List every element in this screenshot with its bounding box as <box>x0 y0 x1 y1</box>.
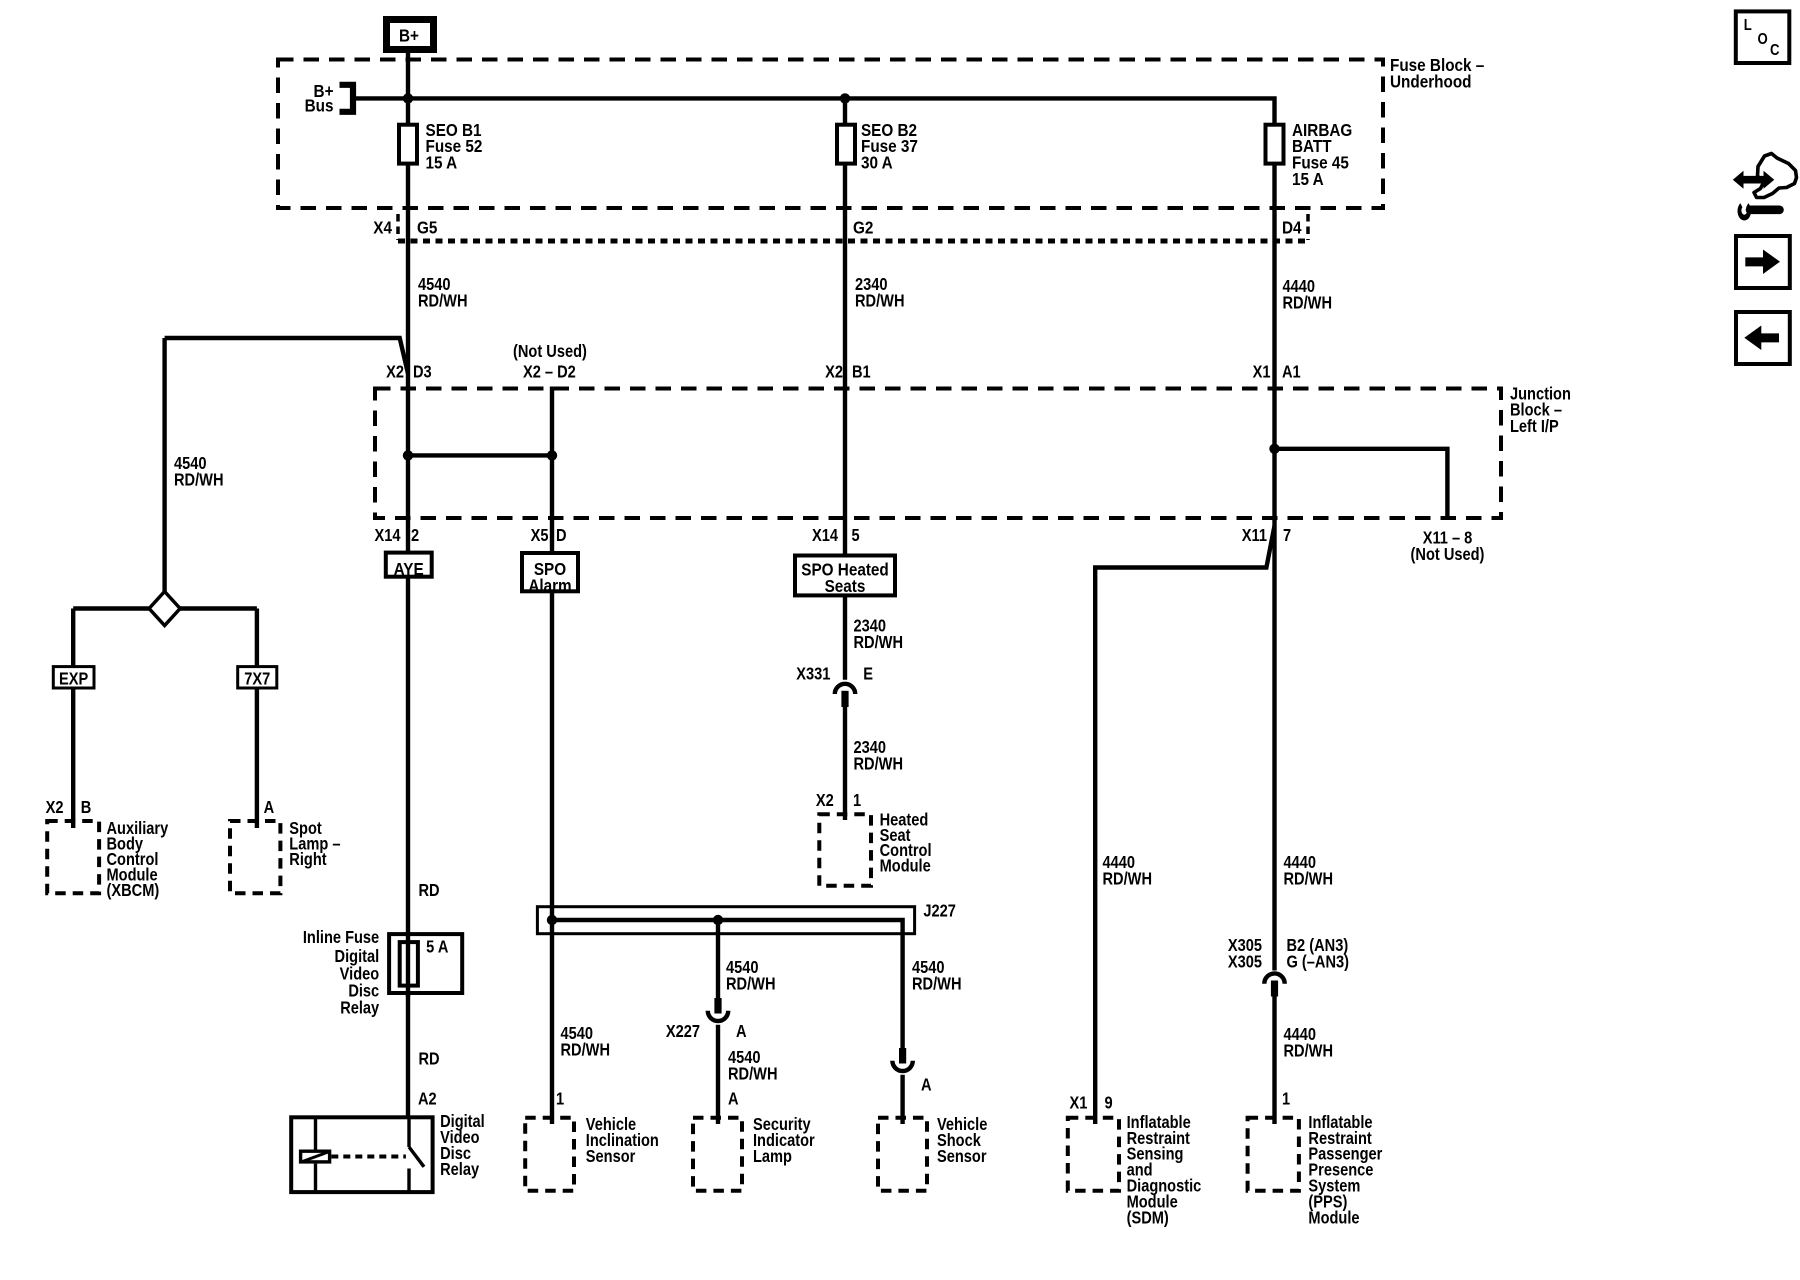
svg-text:30 A: 30 A <box>861 152 893 172</box>
svg-text:D: D <box>556 527 567 545</box>
svg-text:15 A: 15 A <box>426 152 458 172</box>
svg-text:B+: B+ <box>399 25 419 45</box>
svg-text:5: 5 <box>851 527 859 545</box>
svg-text:RD/WH: RD/WH <box>854 634 904 652</box>
svg-text:15 A: 15 A <box>1292 169 1324 189</box>
svg-text:Video: Video <box>340 965 380 983</box>
svg-text:Sensor: Sensor <box>586 1148 636 1166</box>
svg-text:O: O <box>1758 31 1768 48</box>
svg-text:2: 2 <box>411 527 419 545</box>
svg-text:A: A <box>264 799 275 817</box>
svg-text:Disc: Disc <box>348 982 379 1000</box>
svg-text:E: E <box>863 665 873 683</box>
svg-text:Seats: Seats <box>825 576 866 596</box>
svg-text:Relay: Relay <box>340 999 379 1017</box>
svg-text:(Not Used): (Not Used) <box>513 343 587 361</box>
svg-text:RD/WH: RD/WH <box>912 975 962 993</box>
svg-text:A: A <box>728 1091 739 1109</box>
svg-text:A: A <box>736 1023 747 1041</box>
svg-text:AYE: AYE <box>394 559 424 579</box>
svg-text:L: L <box>1744 17 1752 34</box>
svg-text:J227: J227 <box>923 902 956 920</box>
svg-text:(XBCM): (XBCM) <box>106 882 159 900</box>
svg-text:X2: X2 <box>46 799 64 817</box>
svg-text:X2: X2 <box>386 363 404 381</box>
svg-text:7: 7 <box>1283 527 1291 545</box>
svg-text:X2 – D2: X2 – D2 <box>523 363 576 381</box>
svg-text:RD/WH: RD/WH <box>1103 870 1153 888</box>
svg-text:G (–AN3): G (–AN3) <box>1287 953 1350 971</box>
svg-text:RD/WH: RD/WH <box>560 1041 610 1059</box>
svg-text:Right: Right <box>289 851 327 869</box>
svg-text:B1: B1 <box>852 363 871 381</box>
svg-text:A: A <box>921 1077 932 1095</box>
svg-text:Alarm: Alarm <box>528 575 571 595</box>
svg-text:X1: X1 <box>1253 363 1271 381</box>
svg-text:X305: X305 <box>1228 953 1262 971</box>
svg-text:X14: X14 <box>812 527 838 545</box>
svg-text:RD/WH: RD/WH <box>1284 1043 1334 1061</box>
svg-text:RD/WH: RD/WH <box>726 975 776 993</box>
svg-text:X11: X11 <box>1242 527 1267 545</box>
svg-text:RD/WH: RD/WH <box>1282 294 1332 312</box>
svg-text:RD/WH: RD/WH <box>854 755 904 773</box>
svg-text:X227: X227 <box>666 1023 700 1041</box>
svg-text:1: 1 <box>556 1091 564 1109</box>
svg-text:X4: X4 <box>373 217 392 237</box>
svg-text:5 A: 5 A <box>426 939 449 957</box>
svg-text:Relay: Relay <box>440 1161 479 1179</box>
svg-text:7X7: 7X7 <box>244 670 270 688</box>
svg-text:1: 1 <box>853 792 861 810</box>
svg-text:(Not Used): (Not Used) <box>1411 546 1485 564</box>
svg-text:X2: X2 <box>816 792 834 810</box>
svg-text:D3: D3 <box>413 363 432 381</box>
svg-text:Underhood: Underhood <box>1390 71 1472 91</box>
svg-text:RD/WH: RD/WH <box>418 292 468 310</box>
svg-text:Lamp: Lamp <box>753 1148 792 1166</box>
svg-text:C: C <box>1770 42 1780 59</box>
svg-text:(SDM): (SDM) <box>1127 1209 1169 1227</box>
svg-text:9: 9 <box>1104 1094 1112 1112</box>
svg-text:Sensor: Sensor <box>937 1148 987 1166</box>
svg-text:D4: D4 <box>1282 217 1302 237</box>
svg-text:EXP: EXP <box>59 670 89 688</box>
svg-text:Inline Fuse: Inline Fuse <box>303 929 379 947</box>
svg-text:G5: G5 <box>417 217 437 237</box>
svg-text:1: 1 <box>1282 1091 1290 1109</box>
svg-text:RD/WH: RD/WH <box>1284 870 1334 888</box>
svg-text:X2: X2 <box>825 363 843 381</box>
svg-text:X5: X5 <box>531 527 549 545</box>
svg-text:RD: RD <box>418 1051 439 1069</box>
svg-text:X331: X331 <box>796 665 830 683</box>
svg-text:RD/WH: RD/WH <box>855 292 905 310</box>
svg-text:RD/WH: RD/WH <box>728 1065 778 1083</box>
svg-text:RD: RD <box>418 882 439 900</box>
svg-text:Left I/P: Left I/P <box>1510 418 1559 436</box>
svg-text:X1: X1 <box>1070 1094 1088 1112</box>
svg-text:A1: A1 <box>1282 363 1301 381</box>
svg-text:Module: Module <box>880 858 931 876</box>
svg-text:X14: X14 <box>374 527 400 545</box>
svg-text:Digital: Digital <box>335 948 380 966</box>
svg-text:B: B <box>81 799 92 817</box>
svg-text:A2: A2 <box>418 1091 437 1109</box>
svg-text:Bus: Bus <box>305 95 334 115</box>
svg-text:Module: Module <box>1308 1209 1359 1227</box>
svg-text:RD/WH: RD/WH <box>174 471 224 489</box>
svg-text:G2: G2 <box>853 217 873 237</box>
